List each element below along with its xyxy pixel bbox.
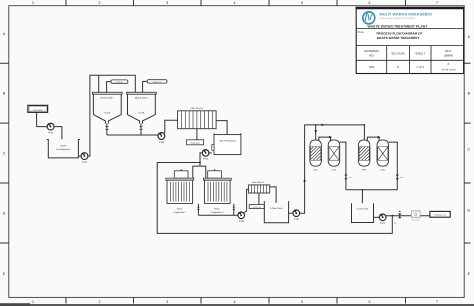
pump P-05	[238, 212, 245, 223]
wire filter press 1 sludge drop	[196, 129, 198, 140]
pump P-02	[81, 152, 88, 163]
svg-text:P-07: P-07	[380, 222, 386, 225]
node feed junction column 1	[315, 124, 317, 126]
wire pump P-07 discharge line	[386, 215, 430, 217]
pump P-03	[158, 132, 165, 143]
node recycle tie-in	[199, 162, 201, 164]
svg-text:INDUSTRIAL WATER TREATMENT: INDUSTRIAL WATER TREATMENT	[380, 17, 416, 20]
svg-text:(07-01-2018): (07-01-2018)	[442, 69, 456, 72]
wire filter press 1 outlet to bak penampung	[216, 121, 227, 135]
wire connector SF02 to CF02 with arrow	[367, 136, 380, 142]
wire feed drop into column SF01 with arrow	[314, 125, 317, 140]
wire pump P-04 down to coagulation feed header	[200, 153, 202, 166]
svg-text:WASTE WATER TREATMENT: WASTE WATER TREATMENT	[377, 36, 420, 40]
svg-text:Kolam: Kolam	[60, 145, 66, 148]
svg-text:2: 2	[99, 300, 101, 304]
svg-text:3: 3	[166, 300, 168, 304]
svg-text:(BRW): (BRW)	[444, 53, 453, 57]
svg-text:Mixing Tank 1: Mixing Tank 1	[101, 97, 115, 100]
svg-text:Filter Press 1: Filter Press 1	[190, 107, 204, 110]
svg-text:1 of 1: 1 of 1	[416, 65, 424, 69]
pump P-06	[289, 210, 300, 221]
svg-text:7: 7	[436, 300, 438, 304]
company logo	[363, 12, 375, 24]
mesin coagulation 2	[203, 178, 231, 214]
pump P-07	[374, 214, 387, 225]
svg-text:C: C	[3, 152, 6, 156]
wire feed drop into column SF02	[364, 124, 366, 126]
svg-text:Discharge Out: Discharge Out	[434, 214, 446, 217]
company name	[380, 12, 433, 20]
svg-text:(1m3): (1m3)	[104, 112, 110, 115]
arrow right on feed header	[322, 124, 325, 127]
motor box coagulation 2	[208, 169, 222, 178]
coagulation feed header and drops	[193, 166, 206, 178]
bak penampung tank	[212, 133, 241, 154]
filter press 2	[249, 181, 270, 193]
wire CF01 outlet down with valve	[340, 142, 352, 190]
table value texts	[369, 62, 456, 71]
node recycle branch	[391, 215, 393, 217]
svg-text:Penampungan: Penampungan	[56, 148, 71, 151]
svg-text:D: D	[3, 212, 6, 216]
wire inlet to pump P-01	[37, 112, 48, 126]
svg-text:Mesin: Mesin	[177, 208, 183, 211]
svg-text:Effluent Tank: Effluent Tank	[270, 207, 283, 210]
svg-text:6: 6	[369, 1, 371, 5]
svg-text:Filter Press 2: Filter Press 2	[252, 181, 265, 184]
svg-text:Control Tank: Control Tank	[357, 207, 370, 210]
valve on discharge line	[398, 211, 401, 218]
filter press 1	[178, 107, 217, 129]
svg-text:1: 1	[32, 1, 34, 5]
wire pump P-02 riser to mixing tank feed header	[88, 75, 135, 156]
wire connector SF01 to CF01 with arrow	[319, 136, 332, 142]
effluent tank	[264, 201, 288, 223]
wire pump P-03 to filter press 1	[164, 120, 178, 133]
svg-text:TITLE :: TITLE :	[357, 31, 366, 34]
svg-text:SECTION: SECTION	[391, 51, 404, 55]
svg-text:Sludge Cake: Sludge Cake	[190, 141, 200, 144]
svg-text:(1m3): (1m3)	[139, 112, 145, 115]
svg-text:4: 4	[234, 1, 236, 5]
svg-text:5: 5	[301, 1, 303, 5]
svg-text:Flow Meter: Flow Meter	[412, 219, 421, 222]
left row ticks	[0, 63, 9, 243]
bottom scan edge band	[0, 304, 474, 306]
top column numbers	[32, 1, 438, 5]
inlet source box	[28, 105, 48, 112]
svg-text:P-06: P-06	[294, 218, 300, 221]
pump P-04	[202, 149, 212, 160]
kolam penampungan tank	[47, 140, 80, 158]
svg-text:3: 3	[166, 1, 168, 5]
mixing tank 2	[127, 92, 157, 123]
svg-text:4: 4	[234, 300, 236, 304]
wire CF02 outlet down with valve	[389, 142, 404, 190]
filter column SF01	[310, 140, 322, 172]
top column ticks	[66, 0, 406, 6]
control tank	[352, 203, 374, 222]
wire mixing tanks header to pump P-03	[107, 134, 158, 136]
wire filtered water header to control tank	[346, 189, 397, 203]
svg-text:SHEET: SHEET	[415, 51, 425, 55]
svg-text:2: 2	[99, 1, 101, 5]
mixing tank 1	[93, 92, 123, 123]
svg-text:Mixing Tank 2: Mixing Tank 2	[135, 97, 149, 100]
table columns	[387, 46, 431, 74]
svg-text:Coagulation 2: Coagulation 2	[211, 211, 225, 214]
svg-text:6: 6	[369, 300, 371, 304]
svg-text:WASTE WATER TREATMENT PLANT: WASTE WATER TREATMENT PLANT	[368, 24, 428, 28]
filter column CF02	[377, 140, 389, 172]
chemical dosing capsule 2	[143, 80, 167, 93]
pump P-01	[47, 123, 54, 134]
right row letters	[467, 35, 470, 276]
wire kolam to pump P-02	[78, 155, 81, 157]
wire filter press 2 outlet to effluent tank	[270, 187, 276, 203]
right row ticks	[464, 63, 470, 243]
flow meter	[411, 211, 420, 222]
filter column CF01	[328, 140, 340, 172]
valve under mixing tank 2	[139, 124, 143, 135]
svg-text:P-04: P-04	[203, 158, 209, 161]
wire feed drop into mixing tank 1	[98, 75, 100, 92]
bottom column numbers	[32, 300, 438, 304]
svg-text:P-02: P-02	[82, 161, 88, 164]
title block	[356, 8, 465, 74]
chemical dosing capsule 1	[107, 80, 128, 92]
wire coagulation outlet header to pump P-05	[198, 214, 238, 216]
svg-text:NO.: NO.	[369, 53, 375, 57]
svg-text:5: 5	[301, 300, 303, 304]
svg-text:Inlet Limbah: Inlet Limbah	[33, 108, 42, 111]
svg-text:P-05: P-05	[239, 220, 245, 223]
bottom column ticks	[66, 297, 406, 303]
table header texts	[364, 49, 453, 57]
coagulation tank 1 outlet with valve	[197, 204, 200, 215]
wire pump P-05 to filter press 2	[244, 189, 249, 213]
svg-text:Mesin: Mesin	[214, 208, 220, 211]
filter column SF02	[358, 140, 370, 172]
wire pump P-06 riser to filter feed header	[300, 125, 365, 213]
left row letters	[3, 32, 6, 276]
svg-text:001: 001	[369, 65, 374, 69]
svg-text:Bak Penampung: Bak Penampung	[219, 140, 236, 143]
title row	[357, 31, 423, 40]
wire pump P-01 to kolam	[54, 127, 62, 140]
mesin coagulation 1	[166, 178, 194, 214]
wire recycle loop back to coagulation feed	[157, 163, 392, 234]
svg-text:MULTI WARKA KREASINDO: MULTI WARKA KREASINDO	[380, 12, 433, 16]
svg-text:P-03: P-03	[159, 141, 165, 144]
discharge outlet box	[430, 211, 450, 217]
motor box coagulation 1	[174, 169, 188, 178]
wire filter press 2 sludge drop	[258, 193, 260, 205]
sludge cake box 2	[249, 205, 264, 209]
svg-text:C: C	[467, 148, 470, 152]
svg-text:1: 1	[32, 300, 34, 304]
svg-text:P-01: P-01	[48, 131, 54, 134]
svg-text:D: D	[467, 209, 470, 213]
coagulation tank 2 outlet with valve	[232, 204, 235, 215]
arrow up on riser	[303, 179, 306, 182]
svg-text:PROCESS FLOW DIAGRAM OF: PROCESS FLOW DIAGRAM OF	[376, 32, 422, 36]
valve under mixing tank 1	[105, 124, 109, 135]
svg-text:7: 7	[436, 1, 438, 5]
sludge cake box 1	[187, 140, 204, 145]
svg-text:Coagulation 1: Coagulation 1	[173, 211, 187, 214]
